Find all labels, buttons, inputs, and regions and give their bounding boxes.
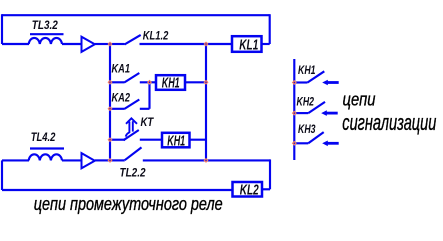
svg-text:KL1.2: KL1.2 xyxy=(143,30,169,42)
node junction right rail KH1 upper xyxy=(204,81,207,84)
wire left border top xyxy=(1,14,3,44)
svg-text:цепи: цепи xyxy=(343,90,376,110)
contact KH1 blade xyxy=(308,71,325,82)
wire KA1 row left xyxy=(110,81,124,83)
wire contact KH1 row xyxy=(294,81,307,83)
arrow KH3 continuation xyxy=(322,141,339,147)
wire KA1 fixed side to KH1 xyxy=(140,81,156,83)
wire right riser xyxy=(269,14,271,44)
wire row0 left segment xyxy=(2,43,29,45)
node junction left rail KA2 xyxy=(108,107,111,110)
contact KA2 blade xyxy=(124,100,139,110)
contact KH2 blade xyxy=(308,102,325,113)
contact KT blade xyxy=(124,130,139,140)
KT time-delay arrow symbol xyxy=(126,118,137,136)
contact KH3 blade xyxy=(308,132,323,143)
svg-text:KH2: KH2 xyxy=(297,97,315,109)
svg-text:TL3.2: TL3.2 xyxy=(32,20,59,32)
wire amplifier to node A xyxy=(95,43,110,45)
amplifier triangle TL3.2 xyxy=(82,37,95,52)
contact KL1.2 blade xyxy=(125,35,141,45)
wire KT row left xyxy=(110,139,125,141)
node junction signal rail KH3 xyxy=(293,142,296,145)
wire node B to relay KL1 xyxy=(206,43,232,45)
wire KL1.2 fixed side to node B xyxy=(140,43,207,45)
svg-text:KH1: KH1 xyxy=(162,75,180,91)
svg-text:KH1: KH1 xyxy=(298,65,316,77)
wire contact KH3 row xyxy=(294,142,308,144)
wire right rail xyxy=(205,44,207,160)
wire coil to amplifier TL4.2 xyxy=(62,159,82,161)
svg-text:TL2.2: TL2.2 xyxy=(120,167,147,179)
relay coil KL1 xyxy=(232,36,262,53)
wire left border bottom xyxy=(1,160,3,190)
wire KH1 upper to right rail xyxy=(185,81,206,83)
wire amplifier to left rail bottom node xyxy=(95,159,110,161)
node A junction xyxy=(108,42,111,45)
wire contact KH2 row xyxy=(294,112,308,114)
arrow KH1 continuation xyxy=(322,80,339,86)
caption цепи сигнализации xyxy=(342,90,436,135)
inductor TL4.2 coil xyxy=(29,154,62,160)
svg-text:KL1: KL1 xyxy=(239,37,258,53)
node junction signal rail KH1 xyxy=(293,81,296,84)
node junction KA2 branch xyxy=(148,81,151,84)
wire riser to KL2 box xyxy=(262,188,270,190)
label TL4.2 with underline xyxy=(30,132,64,148)
wire KH1 lower to right rail xyxy=(190,139,207,141)
relay coil KH1 upper xyxy=(156,75,185,91)
svg-text:TL4.2: TL4.2 xyxy=(31,132,56,144)
svg-text:цепи промежуточного реле: цепи промежуточного реле xyxy=(34,194,223,214)
wire KT fixed side to KH1 lower xyxy=(140,139,162,141)
arrow KH2 continuation xyxy=(321,110,338,116)
inductor TL3.2 coil xyxy=(29,38,62,44)
node B junction xyxy=(204,42,207,45)
wire bottom bus xyxy=(2,189,233,191)
relay coil KL2 xyxy=(233,182,263,199)
wire bottom row to KL2 riser xyxy=(206,159,270,161)
node junction left rail KT xyxy=(108,138,111,141)
wire node to contact TL2.2 xyxy=(110,159,125,161)
node junction left rail KA1 xyxy=(108,81,111,84)
node junction right rail bottom xyxy=(204,159,207,162)
wire signal rail xyxy=(293,59,295,160)
svg-text:KH1: KH1 xyxy=(167,133,185,149)
wire coil to amplifier xyxy=(62,43,82,45)
contact KA1 blade xyxy=(124,73,139,83)
node junction signal rail KH2 xyxy=(293,111,296,114)
wire TL2.2 fixed side to right rail node xyxy=(143,159,206,161)
wire KA2 branch riser xyxy=(148,82,150,109)
svg-text:KL2: KL2 xyxy=(240,183,259,199)
svg-text:KA2: KA2 xyxy=(112,92,131,104)
wire KL2 riser xyxy=(269,159,271,189)
contact TL2.2 blade xyxy=(125,147,142,160)
wire left rail xyxy=(109,44,111,160)
svg-text:KT: KT xyxy=(141,117,155,129)
amplifier triangle TL4.2 xyxy=(82,153,95,168)
node junction left rail bottom xyxy=(108,159,111,162)
label TL3.2 with underline xyxy=(30,20,64,34)
svg-text:сигнализации: сигнализации xyxy=(342,110,436,135)
wire top bus xyxy=(2,14,270,16)
relay coil KH1 lower xyxy=(162,133,190,150)
wire KA2 fixed side xyxy=(140,108,150,110)
wire KL1 to right riser xyxy=(262,43,270,45)
wire row TL4.2 left segment xyxy=(2,159,29,161)
svg-text:KA1: KA1 xyxy=(112,63,131,75)
wire node A to contact KL1.2 xyxy=(110,43,125,45)
wire KA2 row left xyxy=(110,108,124,110)
svg-text:KH3: KH3 xyxy=(298,124,316,136)
